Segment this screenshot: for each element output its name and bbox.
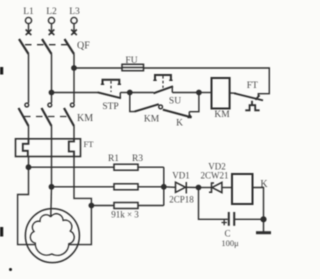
terminal L3 label — [69, 7, 80, 17]
svg-text:2CP18: 2CP18 — [169, 195, 194, 205]
svg-text:91k × 3: 91k × 3 — [111, 210, 139, 220]
resistor R1 label — [108, 154, 119, 164]
svg-text:C: C — [224, 229, 230, 239]
wire L3 to motor — [69, 206, 91, 245]
pushbutton STP blade — [98, 92, 122, 98]
breaker QF pole 2 cross — [49, 30, 55, 36]
breaker QF pole 2 blade — [42, 39, 52, 54]
wire L1 to motor — [18, 167, 35, 244]
wire resistor bus — [163, 167, 165, 205]
node SU-K junction — [197, 90, 201, 94]
scan artifact left edge lower — [0, 227, 3, 237]
wire capacitor to ground rail — [234, 218, 263, 220]
wire L1 contactor to FT box — [28, 126, 30, 139]
svg-text:STP: STP — [102, 102, 118, 112]
svg-text:KM: KM — [214, 110, 230, 120]
contact K terminal — [188, 112, 190, 118]
wire node down to KM aux — [130, 93, 135, 112]
resistor R1 body — [114, 164, 138, 170]
capacitor value 100u — [221, 238, 239, 248]
node resistor bus mid — [162, 185, 166, 189]
motor M body circle — [25, 209, 79, 263]
thermal relay FT box — [16, 139, 81, 157]
breaker QF linkage dashed — [25, 44, 71, 46]
wire L2 below FT — [51, 157, 53, 187]
pushbutton SU link dashed — [162, 76, 164, 88]
fuse FU label — [125, 56, 137, 66]
svg-text:100μ: 100μ — [221, 238, 239, 248]
contactor KM pole 2 blade — [42, 108, 52, 126]
contact KM aux label — [144, 115, 160, 125]
svg-text:KM: KM — [144, 115, 160, 125]
node VD1-VD2-cap junction — [196, 185, 200, 189]
wire fuse line left — [74, 67, 122, 69]
pushbutton SU right terminal — [171, 87, 173, 93]
pushbutton SU blade — [154, 86, 174, 93]
relay coil K label — [260, 179, 268, 190]
breaker QF pole 3 cross — [71, 30, 77, 36]
capacitor C plates — [229, 212, 234, 226]
svg-text:FT: FT — [84, 139, 95, 149]
wire VD2 to K coil — [222, 187, 232, 189]
wire node to VD2 — [199, 187, 212, 189]
wire L1 breaker to contactor — [28, 54, 30, 103]
wire L3 contactor to FT box — [73, 126, 75, 139]
svg-text:R3: R3 — [132, 154, 143, 164]
wire node to SU — [130, 92, 154, 94]
wire L3 below FT — [74, 157, 91, 206]
wire node down to capacitor rail — [199, 188, 228, 220]
diode VD2 part number 2CW21 — [201, 171, 229, 181]
svg-text:L1: L1 — [23, 7, 34, 17]
wire L3 drop to breaker — [73, 24, 75, 34]
wire SU to node — [172, 92, 199, 94]
contactor KM pole 2 terminal circle — [48, 103, 52, 107]
wire K to node — [189, 93, 199, 112]
contact KM aux blade — [135, 104, 159, 111]
zener diode VD2 — [209, 182, 222, 192]
contactor KM pole 3 terminal circle — [70, 103, 74, 107]
diode VD2 label — [208, 162, 226, 172]
pushbutton STP right terminal — [119, 93, 121, 99]
contact KM aux terminal circle — [159, 105, 163, 109]
thermal relay FT heater phase3 — [69, 139, 74, 157]
node ground junction — [261, 217, 266, 222]
svg-text:L3: L3 — [69, 7, 80, 17]
wire R3 left lead — [91, 205, 114, 207]
breaker QF pole 3 blade — [65, 39, 75, 54]
wire L2 to motor — [50, 187, 53, 217]
terminal L1 circle — [25, 17, 31, 23]
contactor KM pole 1 blade — [19, 108, 29, 126]
terminal L1 label — [23, 7, 34, 17]
wire bus to VD1 — [164, 186, 176, 189]
wire KM coil to FT — [230, 92, 236, 94]
wire R2 right lead — [138, 186, 164, 188]
contact K label — [176, 119, 183, 129]
svg-text:SU: SU — [169, 97, 181, 107]
svg-text:L2: L2 — [46, 7, 57, 17]
wire node to KM coil — [199, 92, 212, 94]
breaker QF pole 1 blade — [19, 39, 29, 54]
contactor KM pole 3 blade — [64, 108, 74, 126]
capacitor C polarity plus — [222, 220, 228, 225]
wire VD1 to node — [186, 186, 198, 188]
wire R1 right lead — [138, 166, 164, 168]
resistor R2 body — [114, 184, 138, 190]
pushbutton STP link dashed — [110, 81, 112, 92]
node R1 tap — [26, 165, 30, 169]
relay contact FT blade — [234, 93, 263, 100]
wire L2 contactor to FT box — [51, 126, 53, 139]
fuse FU body — [122, 64, 144, 70]
relay FT thermal element symbol — [245, 101, 259, 111]
svg-text:VD1: VD1 — [172, 171, 190, 181]
node R2 tap — [49, 185, 53, 189]
diode VD1 — [176, 182, 187, 194]
wire L2 breaker to contactor — [51, 54, 53, 103]
terminal L2 circle — [48, 17, 54, 23]
contact K blade — [163, 110, 192, 118]
terminal L3 circle — [71, 17, 77, 23]
resistor R3 body — [114, 203, 138, 209]
contactor KM label — [77, 113, 93, 124]
scan artifact left edge upper — [0, 67, 3, 75]
node STP-SU junction — [128, 90, 132, 94]
thermal relay FT heater phase1 — [23, 139, 29, 157]
svg-text:2CW21: 2CW21 — [201, 171, 229, 181]
wire R3 right lead — [138, 205, 164, 207]
diode VD1 part number 2CP18 — [169, 195, 194, 205]
pushbutton SU label — [169, 97, 181, 107]
wire K coil to ground rail — [253, 188, 264, 220]
node L3 to fuse line — [72, 66, 76, 70]
wire R1 left lead — [29, 166, 115, 168]
wire L2 drop to breaker — [51, 24, 53, 34]
pushbutton SU actuator — [153, 75, 172, 80]
coil KM body — [212, 78, 230, 109]
thermal relay FT box label — [84, 139, 95, 149]
svg-text:KM: KM — [77, 113, 93, 124]
node R3 tap — [89, 203, 93, 207]
wire L3 breaker to contactor — [73, 54, 75, 103]
svg-text:FT: FT — [247, 81, 258, 91]
pushbutton STP label — [102, 102, 118, 112]
diode VD1 label — [172, 171, 190, 181]
pushbutton STP actuator — [101, 80, 121, 85]
breaker QF label — [77, 41, 90, 52]
resistor R3 label — [132, 154, 143, 164]
wire L1 below FT — [28, 157, 30, 168]
wire control line to STP — [52, 92, 98, 94]
coil KM label — [214, 110, 230, 120]
thermal relay FT heater phase2 wire — [51, 139, 53, 157]
wire STP to node — [120, 92, 130, 94]
node L2 to control line — [49, 90, 53, 94]
wire R2 left lead — [52, 186, 115, 188]
wire L1 drop to breaker — [28, 24, 30, 34]
scan artifact bottom dot — [9, 268, 12, 271]
ground — [256, 219, 271, 232]
capacitor C label — [224, 229, 230, 239]
motor winding rosette — [30, 214, 74, 256]
resistor value label 91k x 3 — [111, 210, 139, 220]
contactor KM pole 1 terminal circle — [25, 103, 29, 107]
wire fuse line right — [144, 68, 270, 98]
svg-text:K: K — [176, 119, 183, 129]
svg-text:R1: R1 — [108, 154, 119, 164]
svg-text:QF: QF — [77, 41, 90, 52]
terminal L2 label — [46, 7, 57, 17]
svg-text:K: K — [260, 179, 268, 190]
relay coil K body — [232, 174, 253, 204]
contactor KM linkage dashed — [24, 116, 70, 118]
relay contact FT label — [247, 81, 258, 91]
breaker QF pole 1 cross — [26, 30, 32, 36]
